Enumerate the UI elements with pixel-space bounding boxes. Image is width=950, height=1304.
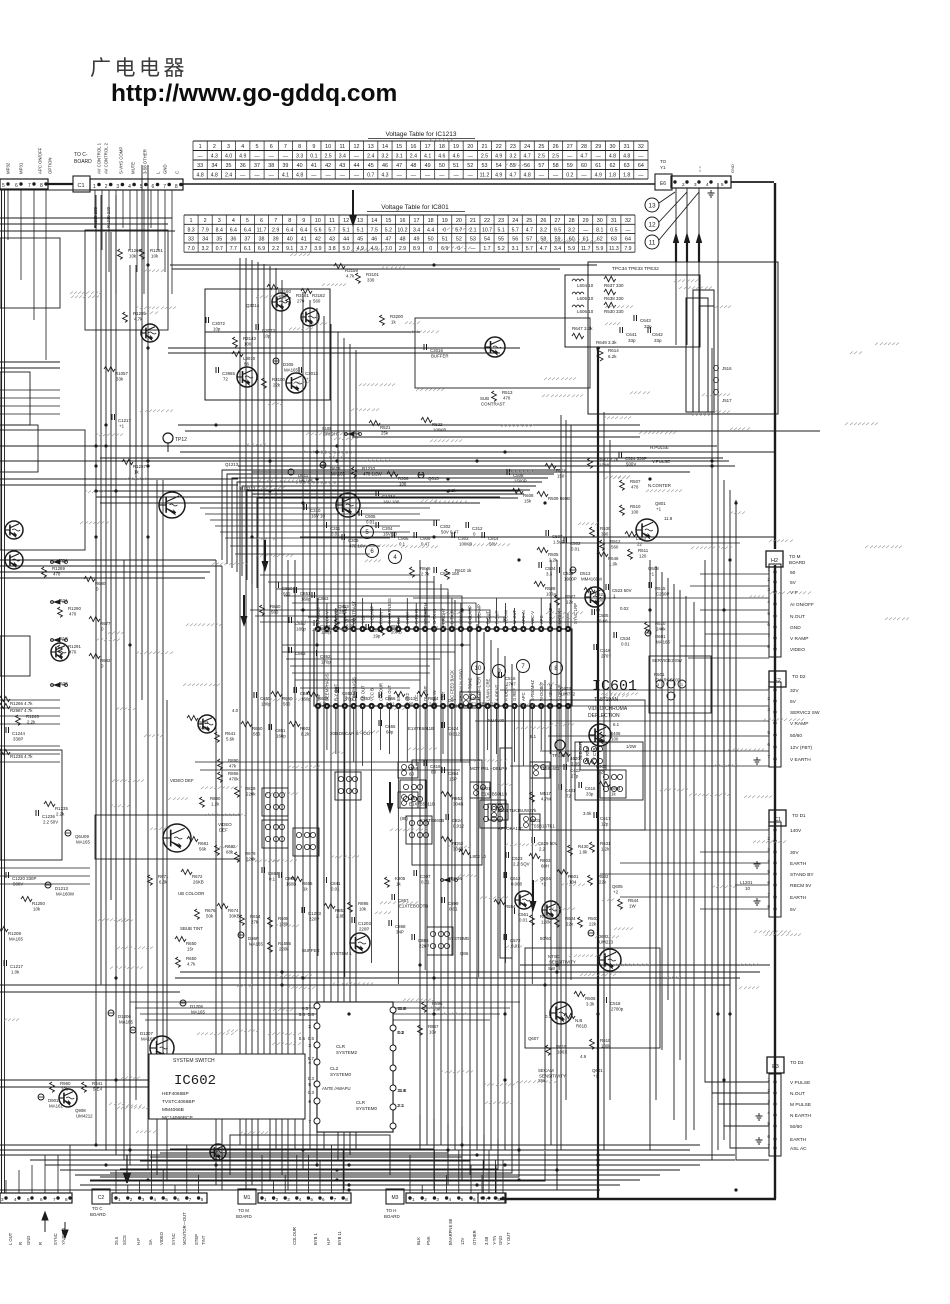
- wire bottom thick bus: [500, 1198, 776, 1201]
- svg-text:R682: R682: [225, 844, 236, 849]
- svg-text:6.1: 6.1: [613, 722, 620, 727]
- svg-text:L605 10: L605 10: [577, 296, 594, 301]
- svg-text:3: 3: [116, 184, 119, 190]
- svg-text:0.01: 0.01: [331, 532, 340, 537]
- svg-text:1900P: 1900P: [564, 577, 577, 582]
- svg-text:L803 T1K15UW27k: L803 T1K15UW27k: [498, 808, 537, 813]
- svg-text:N.CONTER: N.CONTER: [648, 483, 671, 488]
- wire drops from connector C1: [8, 190, 172, 360]
- filter block L604-L606 R637 R638 R530: [565, 266, 700, 347]
- signal arrow Y/VIDEO: [62, 1222, 68, 1238]
- svg-text:7: 7: [28, 183, 31, 189]
- svg-text:R610 1k: R610 1k: [455, 568, 472, 573]
- svg-text:0.01: 0.01: [621, 642, 630, 647]
- svg-text:470: 470: [503, 396, 511, 401]
- wire right border vertical lower: [774, 565, 776, 1199]
- svg-text:5.7: 5.7: [308, 1056, 315, 1061]
- svg-text:8: 8: [175, 184, 178, 190]
- svg-text:BOARD: BOARD: [74, 159, 92, 165]
- svg-text:E1XTE860B: E1XTE860B: [420, 818, 444, 823]
- svg-text:V PULSE: V PULSE: [790, 1080, 810, 1086]
- svg-text:2707: 2707: [506, 682, 516, 687]
- svg-text:4: 4: [299, 1197, 302, 1202]
- svg-text:C1203: C1203: [358, 921, 371, 926]
- svg-text:1.0k: 1.0k: [609, 562, 618, 567]
- svg-text:—: —: [468, 173, 474, 179]
- svg-text:L801: L801: [408, 796, 418, 801]
- svg-text:220k: 220k: [246, 792, 256, 797]
- svg-text:6: 6: [177, 1197, 180, 1202]
- svg-text:3.3: 3.3: [546, 572, 553, 577]
- svg-text:470: 470: [69, 612, 77, 617]
- svg-text:VIDEO DEF: VIDEO DEF: [170, 778, 194, 783]
- svg-text:—: —: [583, 227, 589, 233]
- svg-text:L3010: L3010: [243, 356, 256, 361]
- svg-text:50V 0.47: 50V 0.47: [441, 530, 459, 535]
- svg-text:560: 560: [313, 299, 321, 304]
- svg-text:SYSTEM 1: SYSTEM 1: [330, 951, 352, 956]
- svg-text:+2: +2: [541, 882, 547, 887]
- svg-text:R506: R506: [585, 996, 596, 1001]
- svg-text:C863: C863: [295, 651, 306, 656]
- svg-text:46: 46: [382, 163, 388, 169]
- svg-text:270?: 270?: [601, 654, 611, 659]
- svg-text:MA165: MA165: [656, 640, 670, 645]
- ground at E2 V EARTH: [754, 757, 761, 764]
- svg-text:5.E4: 5.E4: [93, 1087, 103, 1092]
- svg-text:R610: R610: [600, 1038, 611, 1043]
- svg-text:TINT: TINT: [201, 1235, 206, 1245]
- svg-text:4.7: 4.7: [509, 173, 516, 179]
- svg-text:43: 43: [339, 163, 345, 169]
- svg-text:—: —: [240, 173, 246, 179]
- svg-text:2.5: 2.5: [481, 154, 488, 160]
- svg-text:50/60: 50/60: [790, 1124, 802, 1130]
- svg-text:BUFFER: BUFFER: [302, 948, 320, 953]
- svg-text:T558: T558: [408, 766, 419, 771]
- svg-text:C311: C311: [330, 526, 341, 531]
- nested frames right of filter block: [693, 290, 714, 412]
- svg-text:1: 1: [199, 144, 202, 150]
- svg-text:Q3014: Q3014: [246, 303, 260, 308]
- svg-text:1.7: 1.7: [483, 246, 490, 252]
- svg-text:http://www.go-gddq.com: http://www.go-gddq.com: [111, 80, 397, 107]
- svg-text:33: 33: [197, 163, 203, 169]
- svg-text:R641: R641: [225, 731, 236, 736]
- svg-text:3.35: 3.35: [571, 762, 580, 767]
- svg-text:52: 52: [467, 163, 473, 169]
- svg-text:7: 7: [274, 218, 277, 224]
- svg-text:52: 52: [456, 237, 462, 243]
- svg-text:AV CONTROL 1: AV CONTROL 1: [97, 142, 102, 174]
- svg-text:R638 330: R638 330: [604, 296, 624, 301]
- svg-text:TPC34 TPE33 TPE32: TPC34 TPE33 TPE32: [612, 266, 659, 272]
- svg-text:R406: R406: [610, 731, 621, 736]
- svg-text:5.2: 5.2: [498, 246, 505, 252]
- svg-text:26: 26: [553, 144, 559, 150]
- svg-text:1: 1: [264, 1197, 267, 1202]
- svg-text:1: 1: [670, 182, 673, 187]
- svg-text:STAND BY: STAND BY: [790, 872, 814, 878]
- svg-text:R502: R502: [598, 874, 609, 879]
- svg-text:C3965: C3965: [222, 371, 235, 376]
- svg-text:45: 45: [357, 237, 363, 243]
- svg-text:16: 16: [410, 144, 416, 150]
- svg-text:Q853: Q853: [338, 604, 349, 609]
- svg-text:R518: R518: [556, 468, 567, 473]
- svg-text:6: 6: [152, 184, 155, 190]
- svg-text:33p: 33p: [654, 338, 662, 343]
- svg-text:R3143: R3143: [243, 336, 256, 341]
- svg-text:6.4: 6.4: [244, 227, 251, 233]
- svg-text:49: 49: [414, 237, 420, 243]
- svg-text:+1: +1: [306, 377, 312, 382]
- svg-text:64: 64: [638, 163, 644, 169]
- signal direction arrows: [241, 540, 537, 912]
- svg-text:TO D3: TO D3: [790, 1060, 804, 1065]
- svg-text:SUB: SUB: [322, 426, 331, 431]
- svg-text:6: 6: [270, 144, 273, 150]
- svg-text:41: 41: [301, 237, 307, 243]
- wire nest feeding IC601 top pins: [260, 575, 504, 622]
- svg-text:20B DECAR B – OUT: 20B DECAR B – OUT: [330, 731, 373, 736]
- svg-text:C850: C850: [282, 586, 293, 591]
- arrow down at x353: [352, 190, 354, 218]
- svg-text:29: 29: [583, 218, 589, 224]
- svg-text:E1X7E6011B: E1X7E6011B: [408, 726, 434, 731]
- svg-text:6.9: 6.9: [258, 246, 265, 252]
- svg-text:16V 10: 16V 10: [383, 532, 397, 537]
- svg-text:SECAM: SECAM: [538, 1068, 554, 1073]
- svg-text:2.2k: 2.2k: [549, 558, 558, 563]
- svg-text:32: 32: [638, 144, 644, 150]
- svg-text:27k: 27k: [251, 920, 259, 925]
- svg-text:J513: J513: [58, 636, 68, 641]
- svg-text:25.5: 25.5: [114, 1236, 119, 1245]
- svg-text:GND: GND: [790, 625, 801, 631]
- svg-text:33: 33: [188, 237, 194, 243]
- svg-text:R521: R521: [595, 592, 606, 597]
- svg-text:C: C: [175, 171, 180, 174]
- IC601 circled pin group numbers: [361, 526, 563, 678]
- svg-text:—: —: [283, 154, 289, 160]
- svg-text:56: 56: [244, 362, 249, 367]
- svg-text:100: 100: [596, 598, 604, 603]
- svg-text:7.9: 7.9: [202, 227, 209, 233]
- svg-text:3.1: 3.1: [396, 154, 403, 160]
- svg-text:D1206: D1206: [118, 1014, 131, 1019]
- svg-text:100: 100: [611, 737, 619, 742]
- svg-text:TO H: TO H: [386, 1208, 396, 1213]
- svg-text:11: 11: [649, 239, 656, 246]
- svg-text:R1250: R1250: [32, 901, 45, 906]
- svg-text:—: —: [354, 173, 360, 179]
- svg-text:0.02: 0.02: [620, 606, 629, 611]
- svg-text:MA160W: MA160W: [56, 892, 75, 897]
- svg-text:40: 40: [287, 237, 293, 243]
- svg-text:— CLAMP: — CLAMP: [477, 604, 482, 624]
- svg-text:4.8: 4.8: [524, 173, 531, 179]
- svg-text:V RAMP: V RAMP: [790, 721, 808, 727]
- svg-text:4.3: 4.3: [381, 173, 388, 179]
- svg-text:—: —: [425, 173, 431, 179]
- svg-text:C629 50V: C629 50V: [538, 841, 558, 846]
- svg-text:UM4212: UM4212: [76, 1114, 93, 1119]
- vertical wire runs: [2, 165, 737, 1199]
- connector E2 TO D2: [767, 671, 820, 767]
- svg-text:MP32: MP32: [6, 162, 11, 174]
- svg-text:C853: C853: [318, 596, 329, 601]
- svg-text:BYB 11: BYB 11: [337, 1230, 342, 1245]
- svg-text:R866: R866: [228, 771, 239, 776]
- svg-text:C868: C868: [395, 924, 406, 929]
- svg-text:R895: R895: [358, 901, 369, 906]
- svg-text:8.9: 8.9: [413, 246, 420, 252]
- svg-text:5.7: 5.7: [328, 227, 335, 233]
- svg-text:180p: 180p: [296, 627, 306, 632]
- svg-text:R895: R895: [432, 1001, 443, 1006]
- svg-text:48: 48: [410, 163, 416, 169]
- svg-text:58: 58: [540, 237, 546, 243]
- svg-text:—: —: [311, 173, 317, 179]
- svg-text:H.PULSE: H.PULSE: [650, 445, 669, 450]
- wire right border vertical: [774, 183, 776, 549]
- svg-text:150: 150: [557, 474, 565, 479]
- svg-text:C655: C655: [385, 724, 396, 729]
- svg-text:R601: R601: [654, 672, 665, 677]
- svg-text:DEF: DEF: [219, 828, 228, 833]
- svg-text:7.5: 7.5: [371, 227, 378, 233]
- svg-text:26KB: 26KB: [193, 880, 204, 885]
- svg-text:R515: R515: [655, 586, 666, 591]
- svg-text:D86P: D86P: [248, 936, 259, 941]
- svg-text:0.1: 0.1: [269, 877, 276, 882]
- svg-text:470 16V: 470 16V: [349, 544, 365, 549]
- svg-text:4.7k: 4.7k: [346, 274, 355, 279]
- svg-text:SYNC: SYNC: [53, 1233, 58, 1245]
- svg-text:0.3: 0.3: [397, 1030, 404, 1035]
- svg-text:Q601: Q601: [592, 1068, 603, 1073]
- svg-text:21: 21: [470, 218, 476, 224]
- svg-text:16V 100: 16V 100: [383, 500, 400, 505]
- svg-text:UB COLOOR: UB COLOOR: [178, 891, 204, 896]
- svg-text:4: 4: [706, 182, 709, 187]
- svg-text:51: 51: [442, 237, 448, 243]
- svg-text:4.9: 4.9: [595, 173, 602, 179]
- svg-text:C864: C864: [268, 871, 279, 876]
- svg-text:C421: C421: [565, 788, 576, 793]
- svg-text:4.8: 4.8: [211, 173, 218, 179]
- svg-text:5.8: 5.8: [299, 1012, 306, 1017]
- svg-text:6.4: 6.4: [300, 227, 307, 233]
- svg-text:23: 23: [510, 144, 516, 150]
- svg-text:R510: R510: [655, 621, 666, 626]
- svg-text:12: 12: [354, 144, 360, 150]
- svg-text:C306: C306: [348, 538, 359, 543]
- svg-text:7: 7: [53, 1197, 56, 1202]
- svg-text:0.01: 0.01: [519, 918, 528, 923]
- svg-text:—: —: [325, 173, 331, 179]
- svg-text:SUB: SUB: [480, 396, 489, 401]
- svg-text:R1261: R1261: [150, 248, 163, 253]
- svg-text:广电电器: 广电电器: [90, 56, 188, 80]
- svg-text:R683: R683: [198, 720, 209, 725]
- svg-text:HEF4066BP: HEF4066BP: [162, 1091, 189, 1097]
- svg-text:22k: 22k: [566, 922, 574, 927]
- svg-text:5.6: 5.6: [314, 227, 321, 233]
- svg-text:TO: TO: [660, 159, 667, 164]
- bottom connector signal labels: [8, 1212, 511, 1245]
- svg-text:4: 4: [14, 1197, 17, 1202]
- svg-text:5.0: 5.0: [342, 246, 349, 252]
- svg-text:1k: 1k: [611, 792, 616, 797]
- svg-text:MA165: MA165: [76, 840, 90, 845]
- svg-text:BOARD: BOARD: [789, 560, 806, 565]
- svg-text:560: 560: [283, 592, 291, 597]
- svg-text:V EARTH: V EARTH: [790, 757, 811, 763]
- svg-text:120k: 120k: [279, 922, 289, 927]
- svg-text:R679: R679: [245, 851, 256, 856]
- svg-text:50: 50: [439, 163, 445, 169]
- svg-text:20: 20: [467, 144, 473, 150]
- svg-text:10: 10: [475, 666, 482, 672]
- IC602 label block: [149, 1054, 305, 1119]
- signal arrows into Y1 pins: [673, 188, 702, 345]
- small component cluster labels: [0, 206, 683, 1118]
- svg-text:31: 31: [611, 218, 617, 224]
- svg-text:0.1: 0.1: [310, 154, 317, 160]
- svg-text:C905: C905: [365, 514, 376, 519]
- svg-text:R905: R905: [596, 764, 607, 769]
- svg-text:C862: C862: [320, 654, 331, 659]
- svg-text:D618: D618: [330, 466, 341, 471]
- svg-text:VIDEO: VIDEO: [218, 822, 232, 827]
- svg-text:12: 12: [343, 218, 349, 224]
- svg-text:ANTE /AWAPU: ANTE /AWAPU: [322, 1086, 351, 1091]
- svg-text:R3159: R3159: [345, 268, 358, 273]
- svg-text:3.2: 3.2: [202, 246, 209, 252]
- svg-text:C3013: C3013: [305, 371, 318, 376]
- svg-text:R3100: R3100: [272, 377, 285, 382]
- svg-text:4.4: 4.4: [427, 227, 434, 233]
- svg-text:AI ON/OFF: AI ON/OFF: [790, 602, 814, 608]
- svg-text:25: 25: [538, 144, 544, 150]
- svg-text:15k: 15k: [524, 499, 532, 504]
- svg-text:55: 55: [498, 237, 504, 243]
- svg-text:15: 15: [396, 144, 402, 150]
- svg-text:8: 8: [345, 1197, 348, 1202]
- svg-text:COLOUR: COLOUR: [292, 1227, 297, 1245]
- svg-text:C814: C814: [488, 536, 499, 541]
- svg-text:3.7: 3.7: [300, 246, 307, 252]
- svg-text:5: 5: [461, 1197, 464, 1202]
- svg-text:C516: C516: [600, 648, 611, 653]
- svg-text:4.6: 4.6: [438, 154, 445, 160]
- svg-text:54: 54: [496, 163, 502, 169]
- svg-text:J522: J522: [58, 681, 68, 686]
- svg-text:L601: L601: [470, 696, 480, 701]
- svg-text:VIDEO/CHROMA: VIDEO/CHROMA: [588, 706, 628, 712]
- svg-text:11.7: 11.7: [581, 246, 591, 252]
- svg-text:R513: R513: [502, 390, 513, 395]
- svg-text:R852: R852: [452, 796, 463, 801]
- svg-text:AFTOKA11C: AFTOKA11C: [498, 826, 523, 831]
- svg-text:5: 5: [2, 183, 5, 189]
- svg-text:2.2k: 2.2k: [429, 702, 438, 707]
- svg-text:22: 22: [484, 218, 490, 224]
- svg-text:C1217: C1217: [10, 964, 23, 969]
- svg-text:R857: R857: [428, 1024, 439, 1029]
- svg-text:0.2: 0.2: [566, 173, 573, 179]
- svg-text:H.P: H.P: [326, 1238, 331, 1245]
- svg-text:53: 53: [481, 163, 487, 169]
- svg-text:R530 330: R530 330: [604, 309, 624, 314]
- svg-text:100: 100: [399, 482, 407, 487]
- svg-text:L1201: L1201: [740, 880, 753, 885]
- svg-text:72: 72: [566, 794, 571, 799]
- svg-text:36: 36: [230, 237, 236, 243]
- svg-text:1k: 1k: [303, 887, 308, 892]
- svg-text:—: —: [269, 173, 275, 179]
- svg-text:8: 8: [40, 183, 43, 189]
- svg-text:MP31: MP31: [19, 162, 24, 174]
- svg-text:—: —: [340, 173, 346, 179]
- svg-text:30: 30: [609, 144, 615, 150]
- svg-text:BOARD: BOARD: [236, 1214, 252, 1219]
- svg-text:4.7: 4.7: [524, 154, 531, 160]
- svg-text:12: 12: [648, 221, 656, 228]
- svg-text:R1236 4.7k: R1236 4.7k: [10, 754, 33, 759]
- svg-text:R1245: R1245: [26, 714, 39, 719]
- svg-text:47: 47: [396, 163, 402, 169]
- svg-text:R3180: R3180: [278, 289, 291, 294]
- svg-text:C508: C508: [513, 473, 524, 478]
- svg-text:2.5: 2.5: [552, 154, 559, 160]
- svg-text:NU4100: NU4100: [488, 718, 505, 723]
- svg-text:3: 3: [218, 218, 221, 224]
- svg-text:100KB: 100KB: [459, 542, 472, 547]
- svg-text:48: 48: [399, 237, 405, 243]
- svg-text:R1208: R1208: [8, 931, 21, 936]
- svg-text:3.0k: 3.0k: [583, 811, 592, 816]
- svg-text:R602: R602: [345, 618, 356, 623]
- svg-text:R890: R890: [228, 758, 239, 763]
- svg-text:0.068: 0.068: [511, 882, 523, 887]
- svg-text:57: 57: [538, 163, 544, 169]
- svg-text:C561: C561: [518, 912, 529, 917]
- svg-text:= =: = =: [697, 166, 702, 172]
- svg-text:E1X7B5011B: E1X7B5011B: [471, 702, 497, 707]
- svg-text:—: —: [439, 173, 445, 179]
- svg-text:3: 3: [1, 1197, 4, 1202]
- assembly outline boxes: [0, 230, 778, 1175]
- svg-text:26: 26: [540, 218, 546, 224]
- svg-text:10k: 10k: [129, 254, 137, 259]
- svg-text:25k: 25k: [381, 431, 389, 436]
- svg-text:2.2: 2.2: [272, 246, 279, 252]
- svg-text:CONTRAST: CONTRAST: [481, 402, 505, 407]
- svg-text:2.4: 2.4: [225, 173, 232, 179]
- svg-text:5.9: 5.9: [568, 246, 575, 252]
- svg-text:T5591602: T5591602: [540, 766, 560, 771]
- svg-text:50/60: 50/60: [790, 733, 802, 739]
- svg-text:R527: R527: [565, 594, 576, 599]
- svg-text:H.P: H.P: [136, 1238, 141, 1245]
- svg-text:8: 8: [298, 144, 301, 150]
- svg-text:60p: 60p: [386, 730, 394, 735]
- svg-text:47: 47: [385, 237, 391, 243]
- svg-text:6.2k: 6.2k: [608, 354, 617, 359]
